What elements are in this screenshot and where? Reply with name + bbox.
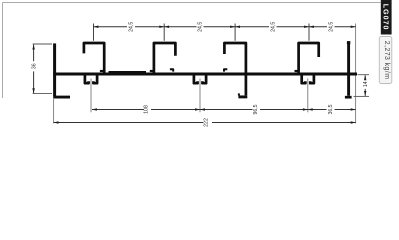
svg-text:108: 108: [143, 105, 149, 114]
svg-text:24,5: 24,5: [129, 22, 135, 32]
svg-text:96,5: 96,5: [253, 104, 259, 114]
svg-text:LG070: LG070: [381, 4, 388, 31]
svg-text:36: 36: [31, 63, 37, 69]
svg-text:2,273 kg/m: 2,273 kg/m: [383, 41, 390, 80]
svg-text:222: 222: [204, 118, 210, 127]
svg-text:24,5: 24,5: [271, 22, 277, 32]
svg-text:24,5: 24,5: [329, 22, 335, 32]
svg-text:24,5: 24,5: [198, 22, 204, 32]
svg-text:36,5: 36,5: [328, 104, 334, 114]
svg-text:14: 14: [363, 81, 369, 87]
